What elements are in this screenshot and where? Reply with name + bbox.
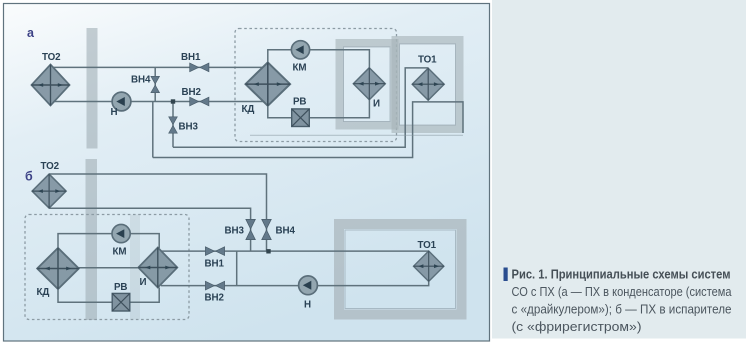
svg-text:ВН2: ВН2 [182,87,202,98]
junction node (b) [266,249,270,253]
svg-text:РВ: РВ [114,282,127,293]
svg-text:ВН4: ВН4 [131,75,151,86]
svg-text:КМ: КМ [113,247,127,258]
duct frame inner outline (I, schematic a) [344,47,391,122]
wall (schematic b) [86,159,98,320]
wire: branch between lines (b) [236,251,238,286]
pump N (b) [299,276,318,295]
svg-text:ВН1: ВН1 [181,52,201,63]
heat exchanger TO1 (b) [414,251,444,281]
dashed machine-room boundary (schematic a) [235,29,397,142]
heat exchanger TO1 (a) [412,68,444,100]
svg-text:Н: Н [304,300,311,311]
svg-text:И: И [140,277,147,288]
wire: compressor suction/discharge line (a) [268,50,370,68]
svg-text:б: б [25,170,33,184]
wire: bottom water line TO2 to KD (a) [53,101,264,103]
duct frame around evaporator I (schematic a) [340,43,395,126]
duct frame inner outline (TO1, schematic a) [400,44,456,125]
wire: TO2 top line to BH4 riser (b) [49,174,266,251]
wire: lower horizontal run to TO1 riser (a) [173,68,428,147]
valve BH1 (b) [205,247,224,256]
valve BH4 (a) [151,76,160,92]
pump N (a) [112,92,131,111]
wire: faint return line under frames (a) [250,134,463,136]
valve BH3 (b) [246,219,255,239]
svg-text:ВН3: ВН3 [225,226,245,237]
valve BH4 (b) [262,219,271,239]
wire: branch down from bottom line (a) [152,102,154,158]
wire: evaporator to TO1 bottom line with pump (b) [161,281,429,285]
svg-text:ТО1: ТО1 [418,55,437,66]
svg-text:РВ: РВ [293,97,306,108]
caption text [512,267,733,335]
svg-text:КМ: КМ [293,63,307,74]
wire: refrigerant bottom line KD-RV-I (b) [58,288,159,303]
wall (schematic a) [87,28,98,149]
valve BH2 (a) [190,97,209,106]
expansion valve RV (b) [112,293,130,311]
duct frame inner outline (TO1, schematic b) [345,230,456,309]
evaporator I (a) [353,68,385,100]
heat exchanger TO2 (b) [32,174,66,208]
svg-text:И: И [373,99,380,110]
svg-text:ВН4: ВН4 [276,226,296,237]
compressor KM (b) [112,224,130,242]
svg-text:СО с ПХ (а — ПХ в конденсаторе: СО с ПХ (а — ПХ в конденсаторе (система [512,284,733,299]
wire: BH3 branch down (a) [172,102,174,148]
caption sidebar background [492,0,746,339]
svg-text:ВН1: ВН1 [205,259,225,270]
wire: lowest horizontal run to TO1 bottom riser (a) [153,102,463,158]
wire: top water line TO2 to KD (a) [53,66,263,68]
svg-text:(с «фрирегистром»): (с «фрирегистром») [512,319,642,334]
expansion valve RV (a) [292,109,310,127]
wire: refrigerant top line KD-KM-I (b) [58,234,159,248]
svg-text:а: а [27,26,35,40]
svg-text:ТО2: ТО2 [41,161,60,172]
compressor KM (a) [291,41,309,59]
dashed machine-room boundary (schematic b) [25,215,189,320]
duct frame around TO1 (schematic b) [339,224,462,315]
valve BH1 (a) [190,63,209,72]
condenser KD (b) [37,248,79,289]
wire: bypass with BH4 (a) [154,67,156,101]
svg-text:Н: Н [111,107,118,118]
valve BH3 (a) [169,117,178,133]
wire: evaporator to TO1 top line (b) [161,250,429,252]
svg-text:ТО1: ТО1 [418,240,437,251]
junction node (a) [171,99,175,103]
svg-text:Рис. 1. Принципиальные схемы с: Рис. 1. Принципиальные схемы систем [512,267,731,282]
condenser KD (a) [245,62,290,105]
svg-text:ВН3: ВН3 [179,122,199,133]
wire: KD to I water link (b) [79,267,139,269]
svg-text:ВН2: ВН2 [205,293,225,304]
svg-text:с «драйкулером»); б — ПХ в исп: с «драйкулером»); б — ПХ в испарителе [512,302,732,317]
svg-text:КД: КД [242,104,255,115]
diagram panel background [4,4,490,342]
wire: condenser to expansion valve to evaporator (a) [268,100,370,118]
svg-text:КД: КД [37,287,50,298]
duct frame around TO1 (schematic a) [396,40,460,129]
caption marker bar [504,268,508,282]
svg-text:ТО2: ТО2 [42,52,61,63]
evaporator I (b) [138,248,177,288]
inner wall (schematic b) [130,215,140,320]
wire: TO2 bottom line to BH3 riser (b) [49,208,251,251]
valve BH2 (b) [205,281,224,290]
heat exchanger TO2 (a) [32,65,70,106]
